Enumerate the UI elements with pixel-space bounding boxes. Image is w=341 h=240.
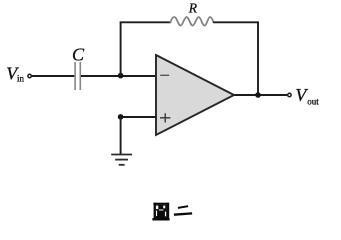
resistor R1 [171, 17, 214, 26]
node junction at inverting input [118, 73, 124, 79]
ground [111, 155, 132, 165]
wire op-amp output [234, 94, 287, 96]
node Vin terminal [28, 74, 31, 77]
op-amp plus input marking [160, 113, 170, 122]
capacitor C1 [75, 62, 80, 90]
svg-text:in: in [17, 74, 25, 84]
node junction at output [255, 92, 261, 98]
wire feedback top right segment [213, 21, 259, 23]
svg-text:R: R [188, 1, 198, 16]
caption figure-two character ER [174, 206, 192, 215]
node Vout terminal [288, 93, 291, 96]
wire capacitor to inverting input [81, 75, 157, 77]
op-amp U1 [156, 55, 234, 135]
wire feedback top left segment [120, 21, 171, 23]
svg-text:C: C [72, 44, 85, 64]
caption figure-two character TU [152, 203, 169, 221]
label Vin [6, 64, 24, 84]
wire non-inverting input [121, 116, 157, 118]
label Vout [295, 85, 319, 106]
wire feedback left vertical [120, 22, 122, 76]
wire feedback right vertical [257, 22, 259, 96]
node junction at non-inverting input [118, 114, 124, 120]
wire Vin to capacitor [32, 75, 75, 77]
wire to ground [120, 117, 122, 154]
op-amp minus input marking [160, 74, 169, 76]
svg-text:out: out [307, 96, 319, 106]
